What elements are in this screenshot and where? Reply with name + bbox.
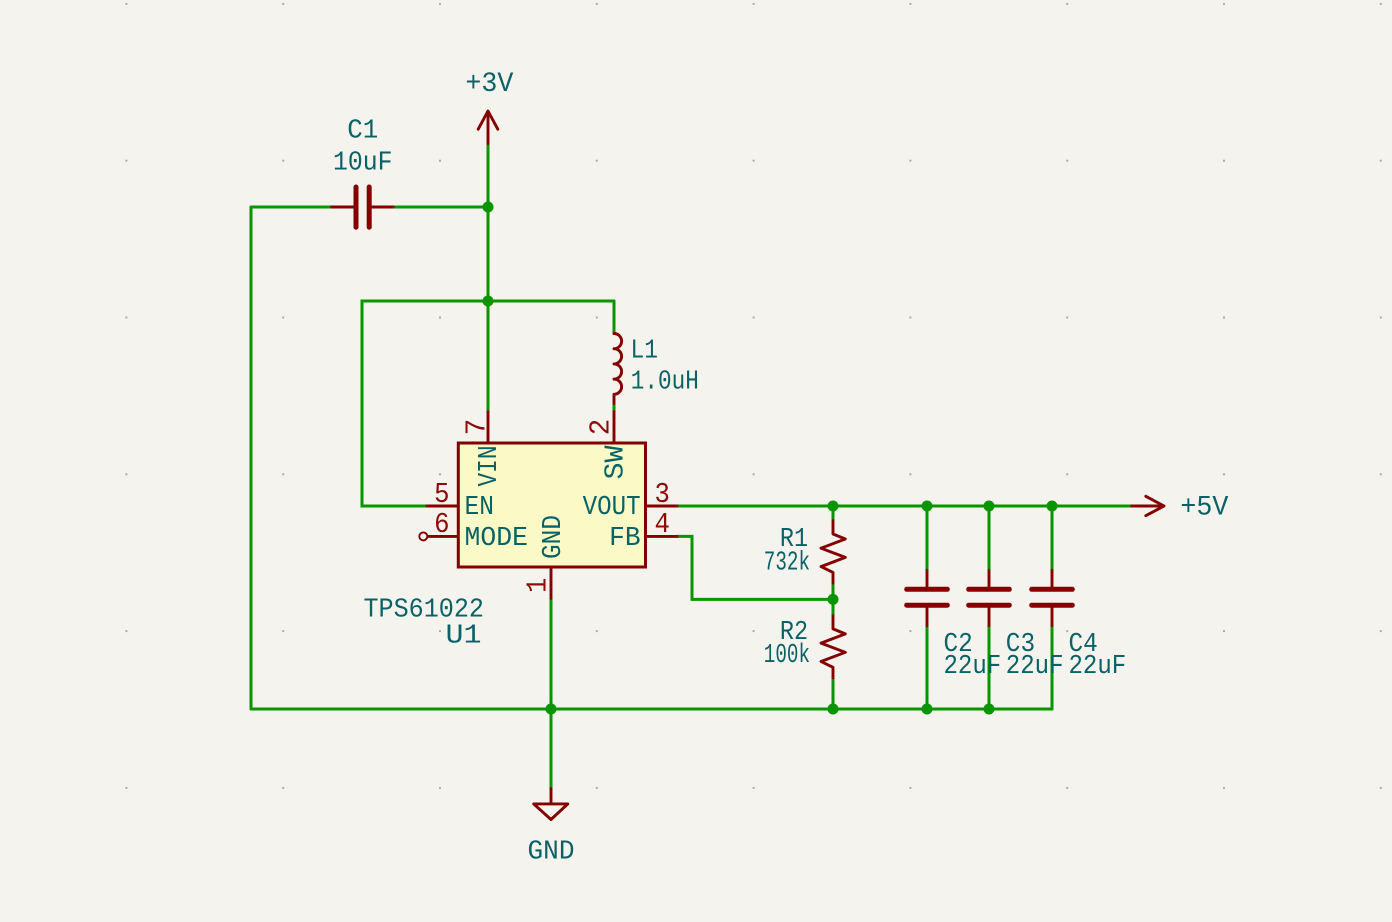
svg-text:+3V: +3V bbox=[465, 69, 513, 100]
svg-text:MODE: MODE bbox=[465, 523, 529, 553]
svg-text:4: 4 bbox=[655, 508, 670, 541]
svg-text:VIN: VIN bbox=[474, 445, 504, 486]
svg-text:7: 7 bbox=[460, 419, 493, 436]
svg-text:1: 1 bbox=[522, 578, 555, 593]
svg-text:22uF: 22uF bbox=[1069, 652, 1127, 682]
svg-text:100k: 100k bbox=[764, 641, 810, 671]
svg-text:U1: U1 bbox=[446, 622, 482, 652]
svg-text:EN: EN bbox=[465, 492, 495, 522]
svg-text:VOUT: VOUT bbox=[583, 492, 641, 522]
svg-text:2: 2 bbox=[584, 419, 617, 436]
svg-text:GND: GND bbox=[538, 515, 568, 559]
svg-text:L1: L1 bbox=[631, 337, 659, 367]
svg-text:3: 3 bbox=[655, 478, 670, 511]
svg-text:6: 6 bbox=[434, 508, 449, 541]
svg-text:10uF: 10uF bbox=[333, 149, 393, 179]
svg-text:+5V: +5V bbox=[1180, 493, 1228, 524]
svg-text:1.0uH: 1.0uH bbox=[631, 367, 699, 397]
svg-text:732k: 732k bbox=[764, 549, 810, 579]
svg-text:22uF: 22uF bbox=[1006, 652, 1064, 682]
svg-text:5: 5 bbox=[434, 478, 449, 511]
svg-text:FB: FB bbox=[609, 523, 641, 553]
svg-text:GND: GND bbox=[528, 838, 575, 868]
svg-text:C1: C1 bbox=[347, 116, 378, 146]
svg-text:SW: SW bbox=[601, 445, 631, 479]
svg-text:22uF: 22uF bbox=[944, 652, 1002, 682]
